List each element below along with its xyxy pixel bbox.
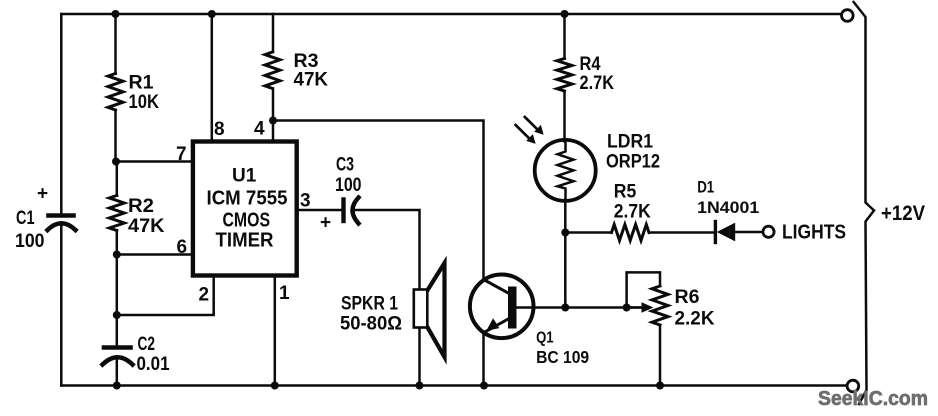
svg-text:4: 4 [254,119,265,140]
wire R3 bottom lead / pin4 [272,89,275,142]
svg-text:100: 100 [15,231,45,252]
wire diode to LIGHTS terminal [735,231,763,234]
resistor R1 [108,74,123,111]
wire LDR to R5 node [564,200,567,233]
svg-text:7: 7 [176,144,187,165]
svg-text:BC 109: BC 109 [536,347,589,367]
LDR light arrow 1 [525,117,539,131]
wire R4 top lead [563,14,566,59]
svg-text:D1: D1 [697,178,714,196]
wire pin7 [116,160,193,163]
svg-text:ICM 7555: ICM 7555 [207,188,288,210]
terminal bottom right [847,380,859,392]
wire R3 top lead [272,14,275,52]
svg-text:R6: R6 [675,287,700,308]
capacitor C1 [48,216,76,231]
svg-text:CMOS: CMOS [223,210,271,232]
svg-text:+: + [320,213,331,234]
wire R2 leads [116,162,119,255]
node pin7 [112,158,120,166]
svg-text:+12V: +12V [881,201,926,225]
node top R4 [561,10,569,18]
wire pin1 [274,277,277,386]
svg-text:C2: C2 [138,334,156,355]
Q1 emitter arrow [486,318,499,331]
Q1 collector diagonal [484,280,511,295]
svg-text:U1: U1 [232,166,257,187]
svg-text:SPKR 1: SPKR 1 [341,294,398,315]
wire C3 to speaker [353,210,420,289]
node base [561,304,569,312]
transistor Q1 [470,275,534,339]
node top pin8 [208,10,216,18]
node emitter bottom [480,382,488,390]
wire R6 top loop [627,272,660,307]
wire Q1 base [517,306,627,309]
svg-text:2: 2 [199,285,210,306]
svg-text:Q1: Q1 [536,330,554,347]
node wiper [623,304,631,312]
svg-text:R4: R4 [580,54,601,75]
svg-text:R5: R5 [614,182,637,203]
resistor R4 [557,59,572,92]
svg-text:2.2K: 2.2K [675,308,715,329]
Q1 base bar [508,287,517,329]
svg-text:+: + [37,184,48,205]
wire left rail lower [60,226,63,386]
wire R4 to LDR [563,91,566,142]
svg-text:ORP12: ORP12 [606,151,660,172]
node pin2 [113,311,121,319]
svg-text:1N4001: 1N4001 [697,198,759,217]
wire R5 to diode [649,231,714,234]
node pin4 [269,117,277,125]
IC U1 ICM 7555 timer box [193,142,297,276]
diode D1 [714,222,717,243]
wire top rail [61,13,841,16]
svg-text:SeekIC.com: SeekIC.com [818,387,928,410]
LDR1 photoresistor [535,140,596,201]
wire node to C2 [116,255,119,346]
capacitor C3 [344,198,359,224]
wire bottom rail [61,384,847,387]
svg-text:47K: 47K [294,70,329,91]
wire node to base [564,233,567,308]
node dots [112,10,665,390]
resistor R2 [109,196,124,231]
wire pin3 [297,209,341,212]
svg-text:2.7K: 2.7K [580,73,615,94]
terminal LIGHTS [763,226,774,237]
svg-text:10K: 10K [129,92,160,113]
LDR light arrow 2 [516,125,531,140]
wire pin2 [117,277,214,315]
svg-text:R1: R1 [129,73,154,94]
wire R1 bottom lead [114,110,117,162]
wire left rail upper [60,14,63,213]
svg-text:100: 100 [335,175,362,196]
svg-text:2.7K: 2.7K [614,202,651,223]
svg-text:6: 6 [177,237,188,258]
LDR zigzag [558,141,574,199]
wire R1 top lead [114,14,117,74]
svg-text:LIGHTS: LIGHTS [782,221,846,244]
wire right +12V rail [854,2,874,404]
svg-text:0.01: 0.01 [137,354,170,375]
wire R5 left lead [565,231,611,234]
wire pin6 [117,253,193,256]
svg-text:8: 8 [214,119,225,140]
svg-text:C1: C1 [16,208,35,229]
wire C2 bottom lead [116,360,119,386]
svg-text:LDR1: LDR1 [607,131,653,152]
node C2 bottom [113,382,121,390]
svg-text:R2: R2 [128,196,154,217]
node top R1 [112,10,120,18]
svg-text:1: 1 [279,283,290,304]
capacitor C2 [103,348,133,365]
wire R6 bottom lead [659,325,662,386]
Q1 emitter diagonal [484,318,511,333]
svg-text:3: 3 [300,191,311,212]
svg-text:C3: C3 [336,154,354,175]
wiper arrow R6 [627,306,643,309]
speaker SPKR1 [427,263,444,357]
wire pin4 to collector [273,121,484,281]
resistor R5 [612,225,650,241]
node speaker bottom [416,382,424,390]
terminal top right [842,10,854,22]
svg-text:47K: 47K [128,216,165,237]
svg-text:50-80Ω: 50-80Ω [340,314,402,335]
svg-text:TIMER: TIMER [216,230,275,252]
wire Q1 emitter lead [482,333,485,386]
wire speaker bottom lead [418,328,421,386]
node R5 [561,229,569,237]
node pin6 [113,251,121,259]
wire pin8 [211,14,214,142]
node R6 bottom [656,382,664,390]
resistor R3 [265,52,280,89]
node pin1 bottom [271,382,279,390]
resistor R6 [652,286,668,325]
